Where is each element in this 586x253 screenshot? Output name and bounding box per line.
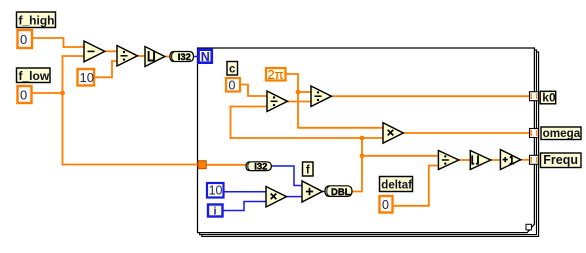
wire multiply10i to add — [287, 196, 303, 198]
wire DBL up — [352, 138, 362, 192]
output tunnel Frequ — [530, 155, 539, 164]
divide1 node — [267, 91, 288, 112]
wire f_low down to loop tunnel — [63, 93, 207, 165]
wire f to divide3 — [362, 155, 438, 157]
svg-text:f_low: f_low — [19, 69, 50, 83]
wire divide to round — [137, 55, 145, 57]
numeric control f_low — [18, 86, 32, 103]
wire 2pi branch to divide2 — [298, 91, 311, 93]
label deltaf — [380, 177, 413, 192]
plus one node — [500, 150, 520, 170]
svg-text:10: 10 — [80, 70, 94, 85]
wire 10 to multiply10i — [225, 191, 267, 193]
input tunnel — [198, 161, 206, 169]
label f_high — [17, 12, 56, 28]
wire subtract to divide — [105, 50, 118, 52]
wire 2pi down to multiply — [287, 74, 384, 128]
svg-text:10: 10 — [209, 184, 223, 198]
label f — [303, 162, 314, 177]
wire deltaf to divide3 — [394, 166, 439, 206]
indicator label omega — [541, 127, 581, 140]
junction f2 — [360, 153, 365, 158]
wire k0 — [332, 95, 530, 97]
wire c to divide1 — [241, 85, 267, 97]
conversion I32 loop — [246, 161, 271, 172]
wire tunnel to I32 loop — [206, 164, 246, 166]
svg-text:Frequ: Frequ — [543, 153, 578, 167]
constant 10 blue — [207, 183, 224, 198]
multiply omega node — [383, 123, 403, 144]
divide3 node — [438, 151, 458, 170]
svg-text:c: c — [229, 64, 236, 76]
loop resize notch flap — [526, 224, 531, 230]
multiply 10i node — [266, 187, 287, 208]
junction 2pi — [296, 90, 301, 95]
wire plus1 to Frequ tunnel — [521, 159, 530, 161]
wire f blue I32 to add — [272, 166, 303, 186]
iteration terminal i — [208, 205, 223, 218]
wire f_high to subtract — [33, 38, 84, 47]
wire omega — [403, 132, 530, 134]
svg-text:DBL: DBL — [331, 187, 351, 198]
svg-text:0: 0 — [229, 79, 236, 93]
constant 2pi — [266, 67, 286, 82]
for loop border — [198, 48, 539, 236]
junction f_low — [60, 91, 65, 96]
svg-text:deltaf: deltaf — [381, 179, 412, 191]
constant deltaf 0 — [380, 196, 393, 213]
loop count terminal N — [199, 50, 212, 64]
constant c 0 — [226, 78, 240, 93]
wire f to divide1 bottom — [231, 107, 363, 139]
svg-text:f_high: f_high — [19, 13, 55, 27]
svg-text:I32: I32 — [178, 52, 191, 63]
svg-text:omega: omega — [543, 127, 581, 140]
output tunnel k0 — [530, 92, 539, 101]
label f_low — [17, 68, 51, 83]
wire round to I32 — [164, 56, 170, 58]
divide node — [117, 46, 138, 67]
add node — [302, 181, 322, 202]
wire f_low out — [33, 92, 63, 94]
constant 10 — [78, 69, 95, 86]
divide2 node — [311, 86, 332, 107]
wire round2 to plus1 — [491, 159, 501, 161]
wire add to DBL — [322, 191, 325, 193]
wire i to multiply10i — [224, 202, 267, 211]
subtract node — [84, 41, 105, 62]
indicator label Frequ — [541, 153, 582, 168]
conversion DBL — [325, 186, 352, 198]
wire f to multiply bottom — [362, 137, 383, 139]
svg-text:k0: k0 — [542, 90, 556, 104]
wire f_low to subtract bottom — [63, 56, 85, 93]
wire divide1 to divide2 — [287, 101, 311, 103]
svg-text:2π: 2π — [267, 67, 283, 82]
wire 10 to divide — [95, 61, 117, 77]
svg-text:f: f — [306, 165, 310, 177]
svg-text:0: 0 — [20, 88, 27, 103]
conversion I32 top — [170, 52, 194, 64]
indicator label k0 — [540, 90, 556, 104]
wire divide3 to round2 — [459, 159, 471, 161]
svg-text:0: 0 — [382, 198, 389, 212]
round to nearest node — [145, 47, 165, 67]
output tunnel omega — [530, 129, 539, 138]
wire I32 to N — [194, 56, 199, 58]
numeric control f_high — [18, 30, 33, 48]
svg-text:I32: I32 — [254, 161, 267, 172]
label c — [227, 62, 238, 76]
svg-text:0: 0 — [20, 32, 27, 47]
round2 node — [470, 151, 490, 170]
svg-text:N: N — [201, 50, 210, 64]
svg-text:i: i — [213, 206, 216, 218]
junction f1 — [360, 136, 365, 141]
